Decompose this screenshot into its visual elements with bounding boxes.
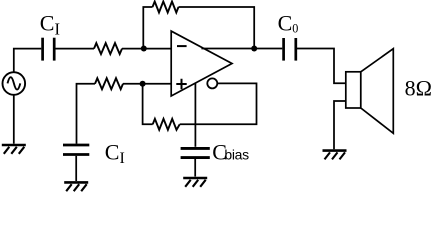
capacitor CI (input, top) bbox=[43, 38, 55, 61]
svg-text:C0: C0 bbox=[278, 10, 299, 35]
ground G1 (below source) bbox=[2, 145, 26, 154]
capacitor Cbias plates bbox=[181, 148, 210, 157]
ground G3 (below Cbias) bbox=[183, 178, 207, 187]
wire CO to speaker top terminal bbox=[297, 49, 346, 84]
ac source V1 bbox=[3, 72, 26, 95]
node B (non-inverting input junction) bbox=[140, 81, 146, 87]
wire V1 bottom to ground bbox=[13, 95, 15, 144]
resistor R4 (gain) bbox=[153, 119, 180, 130]
wire R3 to op-amp non-inverting input bbox=[123, 83, 171, 85]
output wire from op-amp to CO bbox=[201, 48, 282, 50]
op-amp bypass pin circle bbox=[207, 78, 217, 88]
op-amp minus marker bbox=[177, 45, 187, 47]
wire Cbias to ground bbox=[194, 159, 196, 177]
op-amp plus marker bbox=[176, 79, 186, 89]
resistor R3 (non-inverting input) bbox=[95, 78, 123, 89]
speaker bottom terminal wire to ground bbox=[334, 101, 346, 149]
sine wave of V1 bbox=[8, 77, 21, 89]
op-amp ground pin wire bbox=[194, 82, 196, 147]
ground G2 (below bottom CI) bbox=[64, 182, 88, 191]
resistor R2 (feedback) bbox=[153, 2, 179, 13]
bypass loop: circle pin wire right, down, left through R4 bbox=[180, 83, 257, 124]
resistor R1 (inverting input) bbox=[94, 43, 122, 54]
wire R1 to op-amp inverting input bbox=[122, 48, 171, 50]
wire V1 top to CI bbox=[14, 49, 42, 72]
capacitor CI (bottom left, plates) bbox=[63, 145, 89, 155]
node C (output junction) bbox=[251, 46, 257, 52]
node A (inverting input junction) bbox=[141, 46, 147, 52]
svg-text:Cbias: Cbias bbox=[212, 140, 249, 165]
wire CI to R1 bbox=[56, 48, 95, 50]
speaker LS1 cone bbox=[361, 49, 394, 134]
ground G4 (below speaker) bbox=[323, 151, 347, 160]
wire + input from corner to R3 bbox=[77, 84, 96, 144]
wire CI bottom to ground bbox=[75, 156, 77, 181]
svg-text:8Ω: 8Ω bbox=[405, 76, 432, 101]
speaker LS1 driver box bbox=[346, 72, 361, 108]
feedback loop: left vertical, top wire bbox=[143, 7, 152, 49]
wire R4 to + input node bbox=[143, 84, 153, 125]
capacitor CO plates bbox=[284, 38, 296, 61]
op-amp U1 triangle bbox=[171, 31, 232, 96]
svg-text:CI: CI bbox=[40, 10, 60, 38]
feedback loop: top wire right, right vertical to output node bbox=[179, 7, 255, 49]
svg-text:CI: CI bbox=[105, 140, 125, 167]
